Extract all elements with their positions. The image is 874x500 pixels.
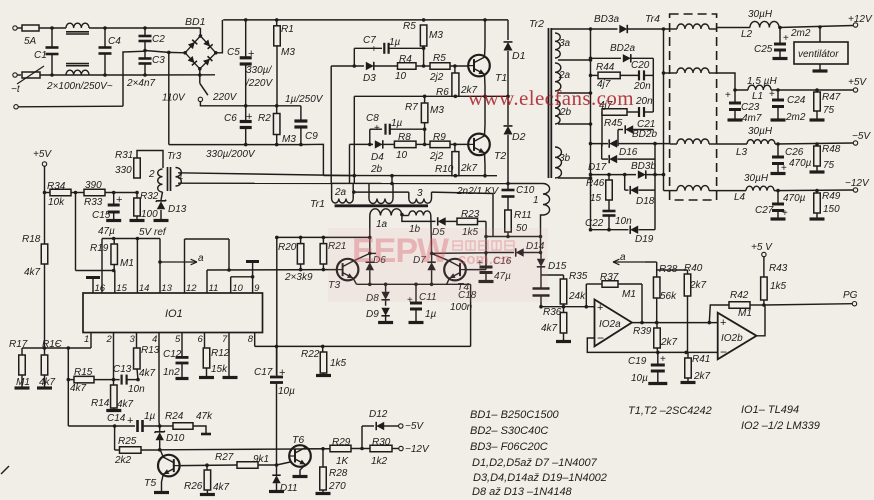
wire R23 to T4 base (485, 221, 487, 252)
capacitor C10 2n2 (507, 184, 509, 191)
resistor R28 270 (322, 449, 324, 467)
svg-text:7: 7 (222, 334, 228, 345)
diode D14 row (486, 252, 514, 254)
Tr1 winding 1a/1b (370, 209, 402, 216)
pin 9 stub (252, 262, 254, 293)
svg-text:PG: PG (843, 290, 858, 301)
Tr4 coil row3 (677, 139, 709, 144)
svg-text:T1: T1 (495, 72, 507, 84)
svg-text:56k: 56k (660, 291, 677, 302)
svg-text:R2: R2 (258, 113, 271, 124)
svg-text:2×100n/250V~: 2×100n/250V~ (46, 81, 113, 92)
wire T4 collector row (432, 252, 486, 255)
svg-text:3b: 3b (559, 153, 571, 164)
svg-text:100n: 100n (450, 302, 473, 313)
Tr4 coil row4 (677, 186, 709, 191)
resistor R8 10 (394, 141, 416, 148)
svg-text:330µ/200V: 330µ/200V (206, 149, 256, 160)
svg-text:BD3a: BD3a (594, 14, 619, 25)
pin 8 feedback wire (254, 333, 256, 347)
wire 1b right to D7 (430, 216, 433, 254)
svg-text:R20: R20 (278, 242, 297, 253)
diode D9 (381, 308, 389, 316)
svg-text:16: 16 (95, 283, 106, 294)
main row y174.6 with BD3b (591, 174, 637, 176)
rail 2n2 row (331, 182, 508, 184)
svg-text:ventilátor: ventilátor (798, 49, 839, 60)
svg-text:R29: R29 (332, 437, 351, 448)
resistor R49 150 (816, 191, 818, 193)
svg-text:D16: D16 (619, 147, 638, 158)
right rail of R44 loop (652, 58, 654, 112)
svg-text:−12V: −12V (845, 178, 870, 189)
Tr2 winding 3b (555, 147, 561, 178)
transistor T2 (468, 134, 490, 156)
svg-text:BD2b: BD2b (632, 129, 657, 140)
bus 330u/200V (169, 144, 301, 146)
svg-text:+5 V: +5 V (751, 242, 773, 253)
wire left drop (353, 96, 355, 183)
emitter bus (357, 283, 471, 285)
svg-text:D4: D4 (371, 152, 384, 163)
svg-text:150: 150 (823, 204, 840, 215)
svg-text:Tr3: Tr3 (167, 151, 182, 162)
svg-text:+: + (127, 415, 133, 427)
capacitor C20 20n (638, 70, 640, 80)
svg-text:BD1– B250C1500: BD1– B250C1500 (470, 409, 560, 421)
bus elbow down to rail (301, 144, 324, 175)
T6 emitter (300, 465, 306, 476)
transistor T4 (444, 259, 466, 281)
wire bridge top to AC rail (199, 28, 201, 36)
svg-text:6: 6 (198, 334, 204, 345)
svg-text:30µH: 30µH (748, 126, 773, 137)
svg-text:R13: R13 (141, 345, 160, 356)
fuse F1 5A (22, 25, 39, 31)
T6 collector (306, 448, 310, 449)
svg-text:D15: D15 (548, 261, 567, 272)
transistor T5 (158, 455, 180, 477)
capacitor C1 (51, 28, 53, 48)
C14 row (68, 425, 135, 427)
resistor R7 M3 (423, 95, 427, 99)
pin 7 to ground (228, 333, 230, 376)
svg-text:4k7: 4k7 (39, 377, 56, 388)
top DC rail (223, 19, 508, 21)
svg-text:270: 270 (328, 481, 346, 492)
resistor R46 15 (608, 175, 610, 180)
svg-text:1µ: 1µ (144, 411, 156, 422)
diode BD2b row (618, 129, 623, 131)
svg-text:D9: D9 (366, 309, 379, 320)
svg-text:R42: R42 (730, 290, 749, 301)
svg-text:−: − (597, 331, 604, 345)
capacitor C16 47u (485, 253, 487, 268)
svg-text:R35: R35 (569, 271, 588, 282)
wire C7 left (353, 48, 355, 66)
svg-text:1: 1 (533, 195, 539, 206)
resistor R27 9k1 (237, 462, 258, 469)
svg-text:10n: 10n (128, 384, 145, 395)
svg-text:IO2b: IO2b (721, 333, 743, 344)
svg-text:+: + (781, 163, 787, 174)
svg-text:IO1– TL494: IO1– TL494 (741, 404, 799, 416)
capacitor C19 10u (657, 352, 659, 365)
resistor R31 330 (134, 158, 141, 178)
svg-text:R7: R7 (405, 102, 418, 113)
svg-text:+: + (248, 48, 254, 60)
svg-text:D12: D12 (369, 409, 388, 420)
svg-text:10: 10 (396, 150, 408, 161)
wire D3 row drop (330, 66, 332, 184)
svg-text:5V ref: 5V ref (139, 227, 167, 238)
wire bridge- to AC bottom (199, 69, 201, 75)
output row IO2a (632, 322, 719, 324)
diode D6 (368, 252, 372, 256)
svg-text:L3: L3 (736, 147, 748, 158)
wire C2/C3 midpoint to bridge (145, 51, 169, 53)
svg-text:M1: M1 (622, 289, 636, 300)
svg-text:2×4n7: 2×4n7 (126, 78, 156, 89)
svg-text:4k7: 4k7 (117, 399, 134, 410)
svg-text:R22: R22 (301, 349, 320, 360)
transistor T3 (337, 259, 359, 281)
terminal L input (13, 26, 17, 30)
svg-text:+: + (782, 208, 788, 219)
resistor R15 4k7 (67, 348, 69, 380)
svg-text:R5: R5 (433, 53, 446, 64)
capacitor C22 10n (603, 210, 616, 213)
diode D16 / -5V row (589, 142, 593, 146)
svg-text:M1: M1 (120, 258, 134, 269)
resistor R19 M1 (112, 269, 116, 273)
svg-text:12: 12 (186, 283, 197, 294)
svg-text:R46: R46 (586, 178, 605, 189)
svg-text:9k1: 9k1 (253, 454, 269, 465)
svg-text:C20: C20 (631, 60, 650, 71)
vertical x277 long wire (276, 237, 278, 377)
svg-text:24k: 24k (568, 291, 586, 302)
110/220 selector switch (199, 75, 201, 83)
pin 15 stub (114, 271, 116, 294)
svg-text:2j2: 2j2 (429, 151, 444, 162)
rail pin12 (185, 238, 230, 240)
Tr3 winding1 bottom wire to 2n2 rail (178, 182, 331, 184)
capacitor C23 4m7 (733, 88, 737, 92)
svg-text:M3: M3 (281, 47, 295, 58)
R20/R21 rail (277, 236, 370, 238)
svg-text:C23: C23 (741, 102, 760, 113)
resistor R5 M3 (vertical) (420, 25, 427, 46)
svg-text:R15: R15 (74, 367, 93, 378)
svg-text:D11: D11 (280, 483, 298, 494)
svg-text:100: 100 (141, 209, 158, 220)
Tr1 winding 3 out wire (432, 192, 494, 236)
svg-text:R30: R30 (372, 437, 391, 448)
svg-text:D1,D2,D5až D7 –1N4007: D1,D2,D5až D7 –1N4007 (472, 457, 598, 469)
svg-text:2k7: 2k7 (689, 280, 707, 291)
svg-text:+12V: +12V (848, 14, 873, 25)
svg-text:R47: R47 (822, 92, 841, 103)
resistor R22 1k5 (322, 346, 324, 352)
svg-text:C6: C6 (224, 113, 237, 124)
resistor R47 75 (816, 90, 818, 92)
svg-text:BD1: BD1 (185, 16, 205, 28)
svg-text:T2: T2 (494, 150, 506, 162)
svg-text:C5: C5 (227, 47, 240, 58)
resistor R9 2j2 (430, 141, 450, 148)
svg-text:EEPW: EEPW (352, 232, 450, 270)
svg-text:R32: R32 (140, 191, 159, 202)
resistor R35 24k (563, 275, 565, 279)
svg-text:1k2: 1k2 (371, 456, 388, 467)
svg-text:+: + (371, 44, 377, 55)
svg-text:5A: 5A (24, 36, 37, 47)
svg-text:+: + (769, 89, 775, 100)
svg-text:D19: D19 (635, 234, 654, 245)
svg-text:+: + (783, 33, 789, 44)
svg-text:4k7: 4k7 (24, 267, 41, 278)
mid rail to C6/R2 (200, 105, 301, 107)
svg-text:R10: R10 (435, 164, 454, 175)
svg-text:390: 390 (85, 180, 102, 191)
resistor R4 10 (398, 63, 417, 70)
svg-text:+: + (597, 302, 603, 314)
svg-text:R39: R39 (633, 326, 652, 337)
wire to T6 base (277, 462, 291, 465)
svg-text:R1: R1 (281, 24, 294, 35)
svg-text:BD3– F06C20C: BD3– F06C20C (470, 441, 548, 453)
svg-text:R14: R14 (91, 398, 110, 409)
svg-text:T6: T6 (292, 434, 304, 446)
svg-text:2j2: 2j2 (429, 72, 444, 83)
svg-text:M3: M3 (430, 105, 444, 116)
diode D8 (381, 292, 389, 300)
resistor R33 390 (84, 189, 105, 196)
resistor R13 4k7 (pin3) (136, 333, 138, 348)
-5V terminal (853, 141, 857, 145)
svg-text:8: 8 (248, 334, 254, 345)
svg-text:D2: D2 (512, 131, 526, 143)
resistor R38 56k (656, 262, 658, 277)
wire R38-R40 link (657, 269, 688, 271)
T5 base wire (180, 464, 237, 467)
T1 collector wire (484, 20, 487, 57)
rail T1 emitter (354, 95, 508, 97)
T3 collector (353, 253, 370, 261)
resistor R43 1k5 (763, 257, 765, 278)
wire from T4 emitter loop (470, 284, 472, 346)
svg-text:47k: 47k (196, 411, 213, 422)
+12V rail with L2 (717, 27, 750, 29)
Tr2 taps to bus (558, 59, 591, 61)
resistor R24 47k (160, 425, 173, 427)
wire 1a left to D6 (369, 216, 371, 254)
svg-text:10k: 10k (48, 197, 65, 208)
dashed coupling box Tr4 (670, 14, 717, 200)
PG wire (765, 304, 852, 305)
wire (39, 27, 66, 29)
svg-text:4k7: 4k7 (213, 482, 230, 493)
capacitor C24 2m2 (777, 90, 779, 100)
resistor R14 4k7 (113, 380, 115, 385)
resistor R5 2j2 (430, 63, 450, 70)
capacitor C12 1n2 (pin5) (181, 333, 183, 358)
svg-text:D3: D3 (363, 73, 376, 84)
svg-text:9: 9 (254, 283, 260, 294)
resistor R40 2k7 (687, 270, 689, 274)
svg-text:75: 75 (823, 105, 835, 116)
svg-text:C10: C10 (516, 185, 535, 196)
pin 1 wire to R16/R17 (90, 333, 92, 348)
collector rail T5-T6 (160, 449, 330, 450)
resistor R30 1k2 (370, 445, 392, 452)
svg-text:470µ: 470µ (789, 158, 812, 169)
svg-text:C14: C14 (107, 413, 126, 424)
Tr3 winding1 top wire to 2b rail (178, 173, 354, 176)
diode D12 (361, 426, 363, 449)
op-amp IO2a (595, 300, 632, 347)
svg-text:10: 10 (395, 71, 407, 82)
svg-text:R28: R28 (329, 468, 348, 479)
svg-text:−5V: −5V (405, 421, 424, 432)
svg-text:+5V: +5V (848, 77, 867, 88)
capacitor C26 470u (777, 144, 779, 157)
svg-text:2a: 2a (558, 70, 571, 81)
resistor R42 M1 (709, 305, 729, 323)
Tr4 node line (663, 29, 665, 191)
T4 collector (432, 253, 450, 261)
pin 16 stub (92, 279, 94, 294)
svg-text:BD3b: BD3b (631, 161, 656, 172)
thermistor -t (22, 72, 40, 78)
svg-text:BD2a: BD2a (610, 43, 635, 54)
svg-text:10: 10 (232, 283, 243, 294)
svg-text:C17: C17 (254, 367, 273, 378)
Tr1 winding 2b (middle) (368, 183, 370, 198)
resistor R11 50 (505, 210, 512, 232)
wire D15 to R35 (541, 274, 564, 276)
node a arrow (pin13) (158, 260, 162, 264)
capacitor C15 47u (113, 193, 115, 206)
diode BD2a row (589, 57, 593, 61)
svg-text:220V: 220V (212, 92, 238, 103)
wire doubler midpoint down to bus (168, 52, 170, 144)
svg-text:13: 13 (161, 283, 172, 294)
svg-text:R17: R17 (9, 339, 28, 350)
svg-text:30µH: 30µH (748, 9, 773, 20)
svg-text:C24: C24 (787, 95, 806, 106)
-5V rail with L3 (717, 143, 747, 145)
right rail of D16-D19 cluster (654, 144, 656, 230)
svg-text:IO1: IO1 (165, 308, 183, 320)
svg-text:1n2: 1n2 (163, 367, 180, 378)
capacitor C21 20n (638, 107, 640, 117)
diode D15 (537, 259, 545, 267)
svg-text:R45: R45 (604, 118, 623, 129)
-12V terminal (853, 188, 857, 192)
svg-text:1µ: 1µ (391, 118, 403, 129)
capacitor C17 10u (276, 346, 278, 375)
resistor R29 1K (309, 448, 330, 450)
+5V terminal (853, 88, 857, 92)
svg-text:R5: R5 (403, 21, 416, 32)
svg-text:2k7: 2k7 (693, 371, 711, 382)
svg-text:110V: 110V (162, 93, 186, 104)
bus right of Tr2 (590, 29, 592, 230)
wire (89, 27, 145, 29)
svg-text:C13: C13 (113, 364, 132, 375)
resistor R36 4k7 (563, 307, 565, 313)
svg-text:D8 až D13 –1N4148: D8 až D13 –1N4148 (472, 486, 573, 498)
svg-text:2m2: 2m2 (790, 28, 811, 39)
pin 2 wire down (113, 333, 115, 380)
svg-text:2×3k9: 2×3k9 (284, 272, 313, 283)
svg-text:M3: M3 (282, 134, 296, 145)
svg-text:2: 2 (148, 169, 155, 180)
diode BD3a (619, 25, 627, 33)
svg-text:11: 11 (209, 283, 219, 294)
svg-text:D13: D13 (168, 204, 187, 215)
svg-text:R34: R34 (47, 181, 66, 192)
resistor R25 2k2 (120, 447, 142, 454)
svg-text:C22: C22 (585, 218, 604, 229)
diode D18 row (624, 175, 626, 191)
svg-text:15: 15 (116, 283, 127, 294)
resistor R45 + C21 row (601, 112, 603, 146)
resistor R32 100 (136, 193, 138, 199)
svg-text:3a: 3a (559, 38, 571, 49)
svg-text:/220V: /220V (245, 78, 273, 89)
svg-text:IO2 –1/2 LM339: IO2 –1/2 LM339 (741, 420, 820, 432)
capacitor C14 1u (136, 420, 139, 432)
svg-text:R44: R44 (596, 62, 615, 73)
svg-text:R36: R36 (543, 307, 562, 318)
capacitor C18 100n (533, 287, 550, 289)
svg-text:D3,D4,D14až D19–1N4002: D3,D4,D14až D19–1N4002 (473, 472, 607, 484)
op-amp IO2b (718, 313, 757, 360)
resistor R41 2k7 (687, 352, 689, 358)
Tr4 coil row1 (677, 24, 709, 29)
svg-text:1k5: 1k5 (770, 281, 787, 292)
T1 emitter wire (484, 74, 487, 96)
svg-text:a: a (620, 252, 626, 263)
svg-text:L4: L4 (734, 192, 746, 203)
svg-text:R37: R37 (600, 272, 619, 283)
svg-text:14: 14 (139, 283, 150, 294)
diode D7 (430, 252, 434, 256)
svg-text:4: 4 (152, 334, 157, 345)
svg-text:C3: C3 (152, 55, 165, 66)
svg-text:T1,T2 –2SC4242: T1,T2 –2SC4242 (628, 405, 712, 417)
capacitor C27 470u (777, 191, 779, 204)
svg-text:330: 330 (115, 165, 132, 176)
svg-text:4k7: 4k7 (541, 323, 558, 334)
-12V rail with L4 (717, 190, 746, 192)
capacitor C7 1u (354, 47, 382, 49)
svg-text:−5V: −5V (852, 131, 871, 142)
capacitor C4 (104, 28, 106, 48)
svg-text:2m2: 2m2 (785, 112, 806, 123)
svg-text:C25: C25 (754, 44, 773, 55)
T5 emitter (162, 474, 164, 491)
svg-text:C12: C12 (163, 349, 182, 360)
svg-text:T5: T5 (144, 477, 156, 489)
+ input row (541, 306, 595, 308)
svg-text:C1: C1 (34, 50, 47, 61)
svg-text:R40: R40 (684, 263, 703, 274)
svg-text:4k7: 4k7 (70, 383, 87, 394)
